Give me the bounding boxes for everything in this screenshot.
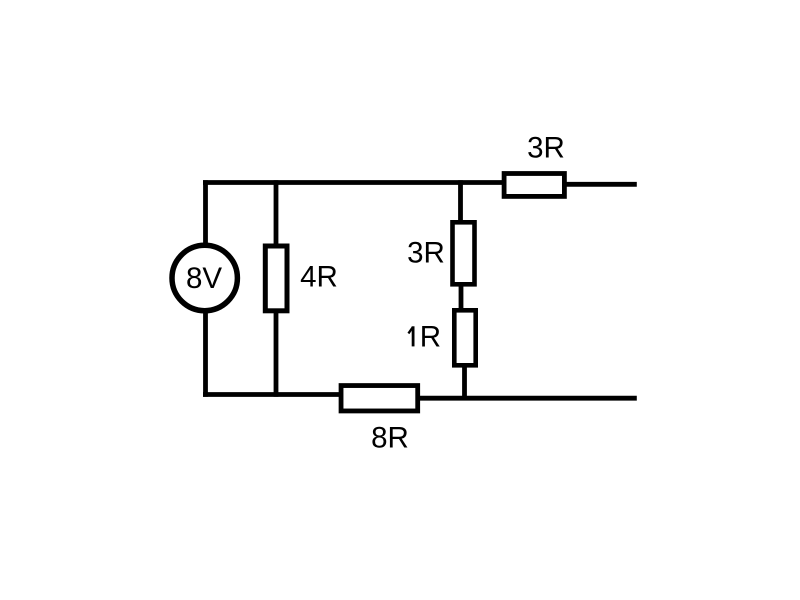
svg-text:4R: 4R (300, 261, 338, 294)
svg-text:8R: 8R (371, 422, 409, 455)
svg-text:R: R (420, 321, 441, 354)
svg-text:3R: 3R (527, 132, 565, 165)
svg-text:3R: 3R (407, 237, 445, 270)
svg-text:8V: 8V (186, 262, 222, 295)
